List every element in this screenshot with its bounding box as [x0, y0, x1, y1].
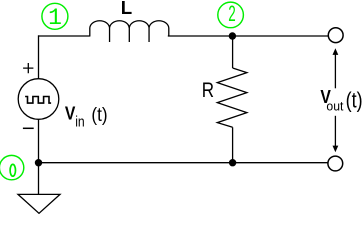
- minus sign: [23, 127, 34, 129]
- ground: [18, 194, 60, 213]
- svg-text:1: 1: [48, 5, 62, 31]
- node 1 (green numbered circle): [42, 3, 68, 31]
- svg-text:(t): (t): [91, 104, 107, 126]
- wire left vertical (node 1 down to source plus terminal): [38, 35, 40, 79]
- node 0 (green numbered circle): [0, 155, 24, 179]
- Vout arrow down (shaft and head): [333, 116, 339, 153]
- svg-text:R: R: [202, 79, 214, 102]
- inductor L1 symbol: [90, 21, 169, 42]
- label Vin(t): [65, 104, 108, 131]
- node 2 (green numbered circle): [218, 2, 244, 28]
- wire bottom horizontal (node 0 to bottom output terminal): [39, 162, 329, 164]
- svg-text:L: L: [121, 0, 132, 18]
- label Vout(t): [320, 87, 362, 114]
- svg-text:(t): (t): [346, 87, 363, 112]
- resistor R1 symbol (zigzag): [217, 68, 247, 127]
- wire top-left horizontal (node 1 to inductor): [39, 35, 90, 37]
- junction dot bottom of resistor: [229, 159, 236, 166]
- plus sign: [23, 63, 33, 73]
- junction dot node 0 left: [35, 159, 42, 166]
- wire resistor bottom lead (zigzag down to bottom wire): [232, 127, 234, 162]
- junction dot node 2 top: [229, 32, 236, 39]
- wire resistor top lead (node 2 down to zigzag): [232, 36, 234, 68]
- output terminal top (open circle): [328, 28, 343, 43]
- svg-text:out: out: [326, 99, 343, 114]
- wire top-right horizontal (inductor to output terminal): [168, 35, 328, 37]
- wire source bottom vertical (source to ground node): [38, 119, 40, 194]
- voltage source V1 circle: [18, 79, 59, 120]
- svg-text:V: V: [65, 104, 76, 124]
- output terminal bottom (open circle): [328, 156, 343, 171]
- svg-text:in: in: [75, 114, 85, 130]
- Vout arrow up (shaft and head): [333, 48, 339, 88]
- voltage source square-wave symbol: [25, 97, 51, 104]
- svg-text:2: 2: [228, 2, 236, 28]
